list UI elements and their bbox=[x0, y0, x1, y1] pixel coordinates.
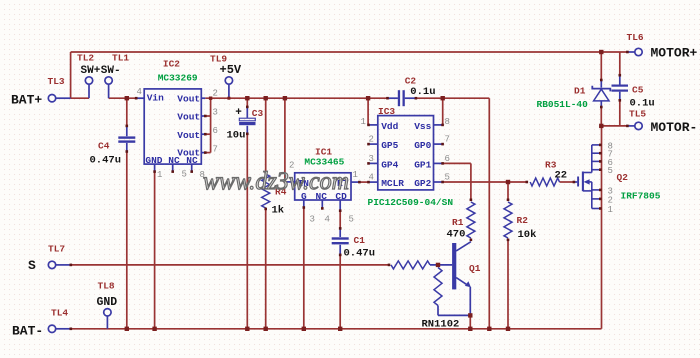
svg-text:SW-: SW- bbox=[101, 65, 121, 77]
wire Q1 base link bbox=[430, 264, 452, 266]
wire C4 bottom to bus bbox=[126, 143, 128, 152]
svg-text:Vout: Vout bbox=[177, 93, 200, 104]
svg-text:Q2: Q2 bbox=[617, 172, 629, 183]
wire IC3 GP4 stub bbox=[369, 162, 378, 164]
svg-text:5: 5 bbox=[349, 215, 354, 225]
svg-text:+: + bbox=[235, 107, 242, 119]
wire SW- pin drop bbox=[108, 84, 110, 98]
wire IC3 GP1 to R1 bbox=[434, 162, 443, 164]
wire TL3 pin stub bbox=[56, 97, 71, 99]
junction rail/Vss bbox=[441, 96, 445, 100]
resistor Q1 base-emitter bbox=[434, 268, 442, 306]
svg-text:Q1: Q1 bbox=[469, 263, 481, 274]
svg-text:22: 22 bbox=[555, 169, 568, 181]
svg-text:5: 5 bbox=[182, 170, 187, 180]
svg-text:10u: 10u bbox=[227, 130, 246, 142]
wire +5V rail bbox=[205, 97, 387, 99]
svg-text:IC2: IC2 bbox=[163, 59, 180, 70]
wire BAT+ to SW+ bbox=[71, 97, 89, 99]
svg-text:Vout: Vout bbox=[177, 112, 200, 123]
junction MOTOR-/D1/Q2 bbox=[599, 124, 603, 128]
wire R4 top from +5V rail bbox=[265, 98, 267, 172]
wire MOTOR+ lead bbox=[627, 51, 634, 53]
svg-text:GP2: GP2 bbox=[414, 178, 431, 189]
svg-text:GP1: GP1 bbox=[414, 159, 431, 170]
wire C2 left pin bbox=[388, 97, 398, 99]
svg-text:www.dz3w.com: www.dz3w.com bbox=[203, 168, 349, 195]
wire IC3 GP0 stub bbox=[434, 143, 443, 145]
svg-text:5: 5 bbox=[608, 166, 613, 176]
svg-text:3: 3 bbox=[213, 108, 218, 118]
terminal TL7 S bbox=[48, 261, 55, 268]
svg-text:GND: GND bbox=[97, 296, 118, 309]
junction bus dots bbox=[125, 327, 129, 331]
svg-text:BAT+: BAT+ bbox=[11, 93, 42, 108]
wire IC2 Vout pin2 stub bbox=[201, 97, 205, 99]
svg-text:C3: C3 bbox=[252, 108, 264, 119]
terminal TL9 +5V bbox=[225, 77, 232, 84]
svg-text:MC33465: MC33465 bbox=[304, 157, 344, 168]
svg-text:1k: 1k bbox=[272, 205, 285, 217]
svg-text:MOTOR-: MOTOR- bbox=[651, 120, 698, 135]
svg-text:0.47u: 0.47u bbox=[344, 248, 376, 260]
resistor Q1 base series bbox=[391, 261, 430, 269]
resistor R4 bbox=[262, 174, 270, 208]
svg-text:NC: NC bbox=[168, 155, 180, 166]
junction rail/IC1 pin2 bbox=[283, 96, 287, 100]
resistor R2 bbox=[504, 202, 512, 238]
resistor R3 bbox=[530, 178, 559, 186]
svg-text:Vss: Vss bbox=[414, 121, 431, 132]
wire Q1 bias resistor bottom link bbox=[437, 306, 439, 316]
wire +5V terminal drop bbox=[228, 84, 230, 98]
wire C3 top bbox=[246, 98, 248, 107]
wire IC1 NC stub bbox=[321, 200, 323, 208]
svg-text:4: 4 bbox=[137, 87, 142, 97]
wire D1 top from bus bbox=[600, 52, 602, 80]
junction rail/Vdd bbox=[366, 96, 370, 100]
capacitor C4 bbox=[118, 136, 135, 138]
junction TL9 bbox=[227, 97, 230, 100]
svg-text:1: 1 bbox=[361, 117, 366, 127]
svg-text:TL2: TL2 bbox=[77, 53, 94, 64]
terminal TL4 BAT- bbox=[48, 325, 55, 332]
svg-text:C2: C2 bbox=[405, 75, 417, 86]
capacitor C2 bbox=[398, 90, 400, 106]
junction Q1 emitter node bbox=[468, 313, 472, 317]
svg-text:6: 6 bbox=[445, 154, 450, 164]
terminal TL3 BAT+ bbox=[48, 95, 55, 102]
svg-text:5: 5 bbox=[445, 173, 450, 183]
svg-text:PIC12C509-04/SN: PIC12C509-04/SN bbox=[368, 197, 454, 208]
svg-text:3: 3 bbox=[310, 215, 315, 225]
junction rail/C3 bbox=[245, 96, 249, 100]
wire IC2 GND pin to bus bbox=[154, 164, 156, 172]
wire C4 top bbox=[126, 98, 128, 126]
svg-text:0.1u: 0.1u bbox=[410, 86, 435, 98]
wire S line bbox=[56, 264, 71, 266]
svg-text:6: 6 bbox=[213, 126, 218, 136]
svg-text:1: 1 bbox=[157, 170, 162, 180]
svg-text:GP0: GP0 bbox=[414, 140, 431, 151]
svg-text:C5: C5 bbox=[632, 85, 644, 96]
svg-text:MCLR: MCLR bbox=[381, 178, 404, 189]
svg-text:470: 470 bbox=[447, 229, 466, 241]
wire SW- to IC2 Vin bbox=[109, 97, 137, 99]
svg-text:TL3: TL3 bbox=[48, 76, 65, 87]
wire gnd vertical from rail to bottom bus bbox=[488, 98, 490, 329]
wire SW+ pin drop bbox=[88, 84, 90, 98]
svg-text:S: S bbox=[28, 258, 36, 273]
svg-text:RN1102: RN1102 bbox=[422, 319, 460, 331]
microcontroller IC3 PIC12C509 bbox=[378, 116, 434, 190]
wire C2 right pin bbox=[405, 97, 416, 99]
svg-text:Vdd: Vdd bbox=[381, 121, 398, 132]
wire D1 bottom bbox=[600, 101, 602, 107]
svg-text:2: 2 bbox=[608, 195, 613, 205]
junction rail/R4 bbox=[264, 96, 268, 100]
svg-text:2: 2 bbox=[213, 89, 218, 99]
wire C5 bottom bbox=[619, 92, 621, 101]
wire IC2 NC stubs bbox=[172, 164, 174, 172]
wire C3 bottom to bus bbox=[246, 126, 248, 134]
wire IC2 Vout stub bbox=[201, 133, 205, 135]
wire IC3 GP2 to R2 and R3 bbox=[434, 181, 443, 183]
wire IC2 Vin pin stub bbox=[136, 97, 144, 99]
svg-text:C1: C1 bbox=[354, 235, 366, 246]
svg-text:SW+: SW+ bbox=[81, 65, 101, 77]
svg-text:BAT-: BAT- bbox=[12, 324, 43, 339]
svg-text:RB051L-40: RB051L-40 bbox=[537, 99, 589, 110]
wire IC1 CD pin to C1 bbox=[339, 200, 341, 211]
wire Vss gnd segment right of C2 bbox=[416, 97, 489, 99]
wire bottom bus BAT- bbox=[56, 328, 71, 330]
svg-text:GND: GND bbox=[145, 155, 162, 166]
svg-text:TL5: TL5 bbox=[629, 109, 646, 120]
wire R2 top bbox=[507, 182, 509, 200]
svg-text:0.47u: 0.47u bbox=[90, 155, 122, 167]
svg-text:GP5: GP5 bbox=[381, 140, 398, 151]
wire IC1 pin1 to IC3 MCLR bbox=[351, 181, 359, 183]
diode D1 schottky bbox=[592, 86, 610, 92]
wire R4 bottom to bus bbox=[265, 209, 267, 329]
wire IC3 GP5 stub bbox=[369, 143, 378, 145]
wire MOTOR- lead bbox=[601, 125, 627, 127]
svg-text:MOTOR+: MOTOR+ bbox=[651, 46, 698, 61]
junction Q1 base node bbox=[436, 263, 440, 267]
wire rail to IC3 Vss bbox=[442, 98, 444, 125]
pin end dots bbox=[70, 264, 73, 267]
terminal TL5 MOTOR- bbox=[635, 122, 642, 129]
wire +5V to IC1 pin2 bbox=[284, 98, 286, 182]
wire IC2 Vout stub bbox=[201, 152, 205, 154]
transistor Q2 mosfet bbox=[577, 177, 579, 187]
svg-text:IRF7805: IRF7805 bbox=[621, 191, 661, 202]
wire rail to IC3 Vdd bbox=[367, 98, 369, 125]
svg-text:C4: C4 bbox=[98, 141, 110, 152]
wire R3 right to Q2 gate bbox=[560, 181, 574, 183]
voltage regulator IC2 MC33269 bbox=[144, 89, 201, 164]
svg-text:TL7: TL7 bbox=[48, 244, 65, 255]
svg-text:MC33269: MC33269 bbox=[158, 73, 198, 84]
wire R2 bottom to bus bbox=[507, 240, 509, 329]
junction GP2/R2 bbox=[506, 180, 510, 184]
terminal TL1 SW- bbox=[105, 77, 112, 84]
resistor R1 bbox=[467, 202, 475, 238]
svg-text:7: 7 bbox=[213, 145, 218, 155]
svg-text:TL4: TL4 bbox=[51, 308, 68, 319]
wire C1 bottom to bus bbox=[339, 245, 341, 255]
terminal TL6 MOTOR+ bbox=[635, 48, 642, 55]
svg-text:TL6: TL6 bbox=[627, 32, 644, 43]
svg-text:8: 8 bbox=[445, 117, 450, 127]
svg-text:IC3: IC3 bbox=[378, 106, 395, 117]
transistor Q1 RN1102 bbox=[452, 243, 456, 289]
junction BAT+/C4/Vin bbox=[125, 96, 129, 100]
svg-text:R2: R2 bbox=[517, 215, 529, 226]
wire IC2 Vout tie vertical bbox=[210, 98, 212, 152]
voltage supervisor IC1 MC33465 bbox=[295, 173, 351, 200]
capacitor C5 bbox=[612, 85, 629, 87]
junction top bus/D1 bbox=[599, 50, 603, 54]
svg-text:Vin: Vin bbox=[147, 92, 164, 103]
svg-text:GP4: GP4 bbox=[381, 159, 398, 170]
junction Vout pin2 bbox=[209, 97, 212, 100]
svg-text:1: 1 bbox=[353, 170, 358, 180]
wire IC2 Vout stub bbox=[201, 115, 205, 117]
wire IC1 G pin to bus bbox=[303, 200, 305, 208]
svg-text:Vout: Vout bbox=[177, 130, 200, 141]
svg-text:1: 1 bbox=[608, 205, 613, 215]
capacitor C1 bbox=[332, 237, 349, 239]
wire C5 top bbox=[619, 52, 621, 75]
svg-text:+5V: +5V bbox=[220, 63, 242, 77]
svg-text:D1: D1 bbox=[574, 86, 586, 97]
svg-text:10k: 10k bbox=[518, 229, 537, 241]
wire right vertical MOTOR- to bus bbox=[601, 126, 603, 329]
svg-text:7: 7 bbox=[445, 135, 450, 145]
wire GND terminal drop bbox=[106, 316, 108, 329]
svg-text:TL8: TL8 bbox=[98, 281, 115, 292]
svg-text:NC: NC bbox=[186, 155, 198, 166]
svg-text:TL1: TL1 bbox=[112, 53, 129, 64]
svg-text:4: 4 bbox=[325, 215, 330, 225]
svg-text:R1: R1 bbox=[452, 217, 464, 228]
terminal TL2 SW+ bbox=[85, 77, 92, 84]
terminal TL8 GND bbox=[104, 309, 111, 316]
wire Q1 emitter drop bbox=[469, 287, 471, 316]
wire top bus left leg bbox=[70, 52, 72, 98]
wire top bus BAT+ to MOTOR+ bbox=[71, 51, 628, 53]
